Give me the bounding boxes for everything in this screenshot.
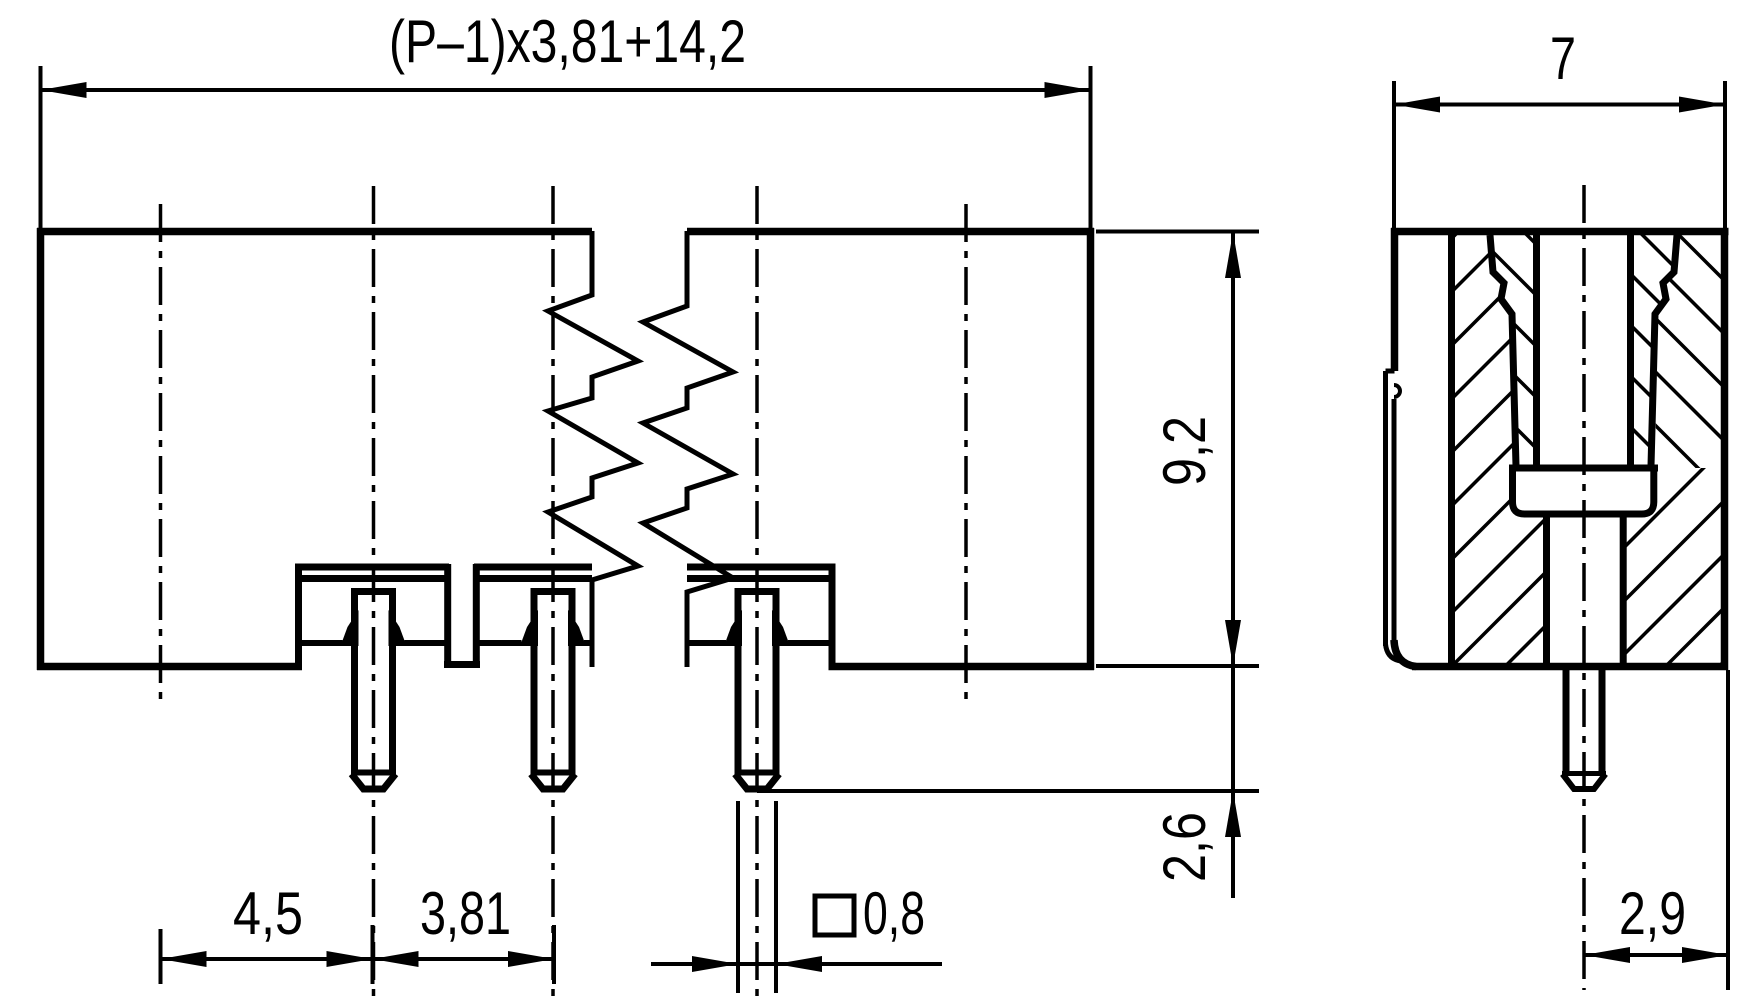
svg-text:2,9: 2,9	[1619, 880, 1686, 947]
svg-text:(P–1)x3,81+14,2: (P–1)x3,81+14,2	[389, 8, 746, 75]
svg-text:3,81: 3,81	[420, 880, 511, 947]
svg-text:4,5: 4,5	[233, 880, 303, 947]
svg-text:0,8: 0,8	[863, 880, 925, 947]
svg-text:2,6: 2,6	[1151, 812, 1218, 882]
svg-text:7: 7	[1550, 25, 1576, 92]
svg-text:9,2: 9,2	[1151, 416, 1218, 486]
